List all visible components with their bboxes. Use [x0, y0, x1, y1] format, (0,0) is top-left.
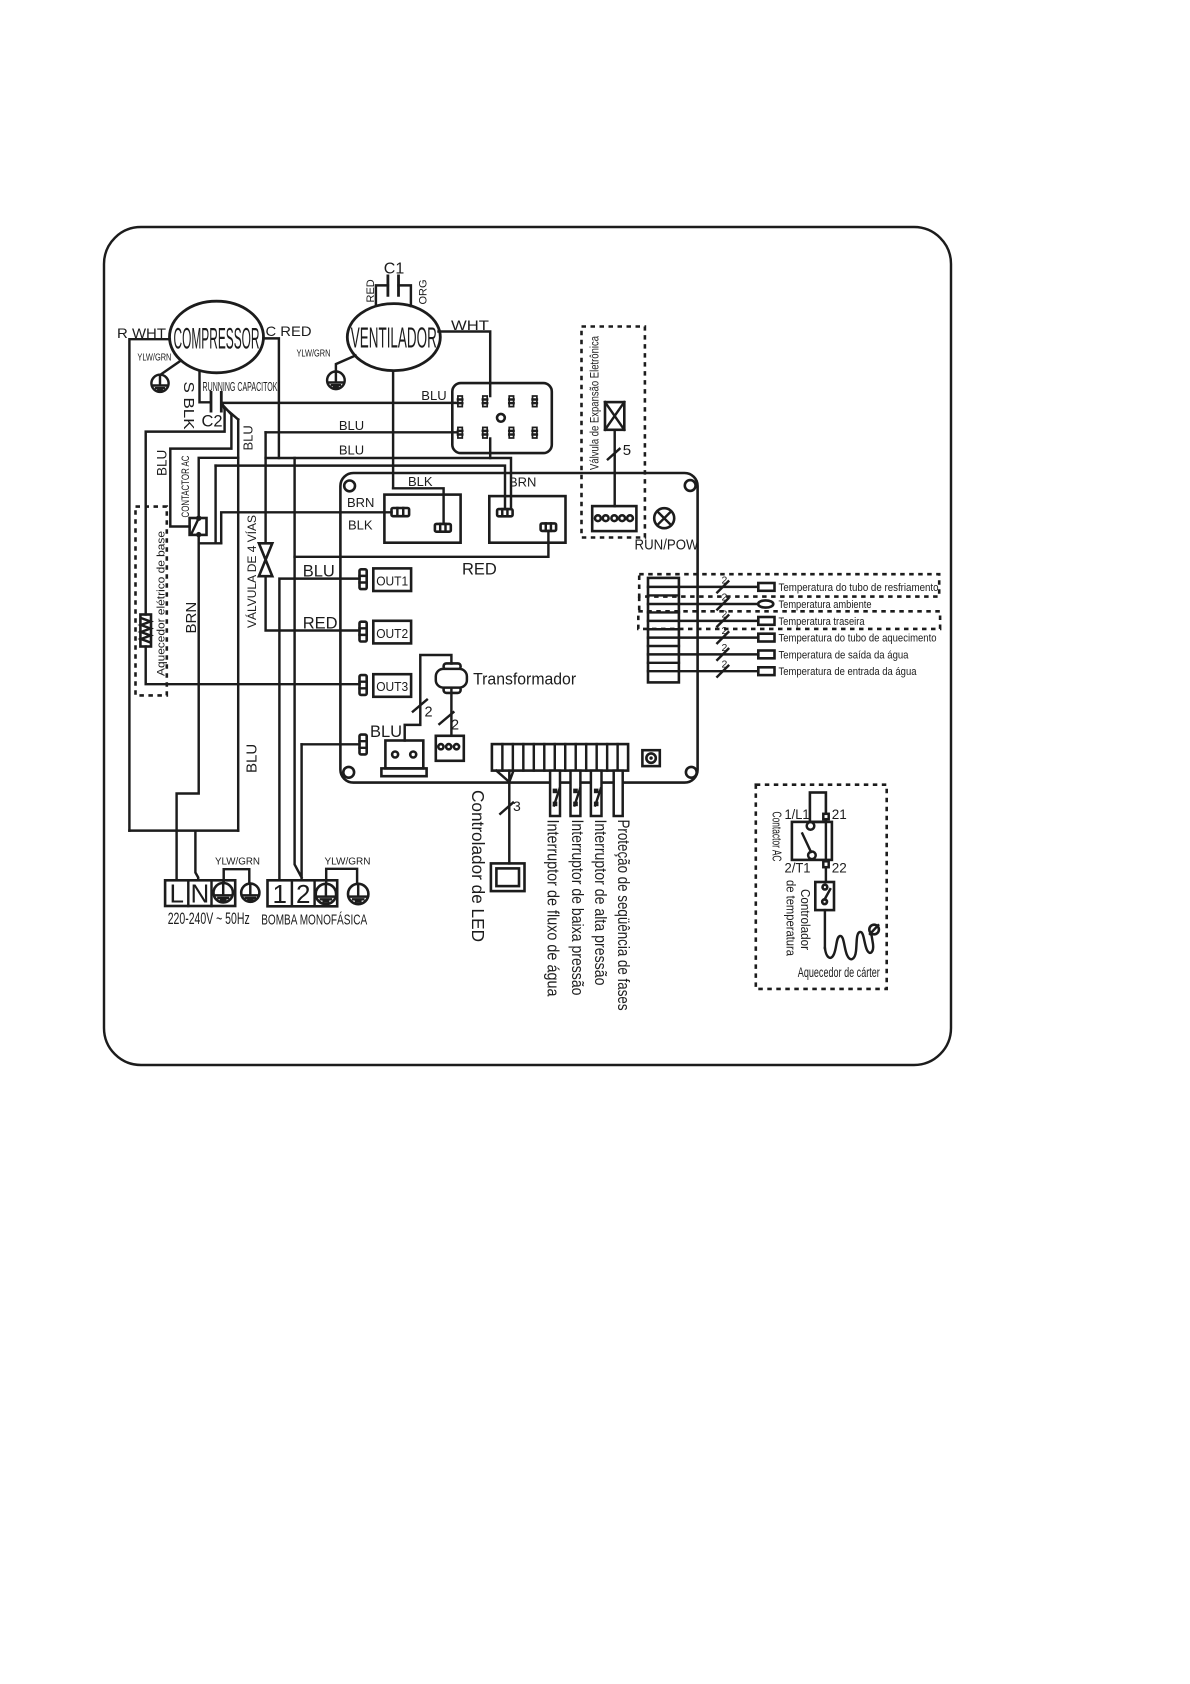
svg-text:ORG: ORG	[418, 279, 430, 304]
svg-text:BLU: BLU	[244, 744, 261, 773]
svg-text:BLU: BLU	[421, 388, 446, 403]
svg-text:22: 22	[832, 861, 847, 876]
svg-text:BLU: BLU	[303, 563, 335, 581]
svg-text:YLW/GRN: YLW/GRN	[297, 348, 331, 360]
svg-text:OUT1: OUT1	[376, 573, 408, 588]
svg-text:2: 2	[451, 718, 459, 734]
svg-text:Válvula de Expansão Eletrônica: Válvula de Expansão Eletrônica	[590, 336, 602, 470]
svg-text:Interruptor de fluxo de água: Interruptor de fluxo de água	[544, 820, 563, 997]
svg-text:CONTACTOR AC: CONTACTOR AC	[180, 455, 192, 517]
svg-text:C2: C2	[202, 413, 223, 431]
svg-text:Controlador de LED: Controlador de LED	[468, 790, 488, 942]
svg-text:BLU: BLU	[339, 442, 364, 457]
svg-text:2: 2	[425, 705, 433, 721]
svg-text:BLK: BLK	[348, 518, 373, 533]
svg-text:3: 3	[513, 798, 521, 814]
svg-text:Temperatura traseira: Temperatura traseira	[779, 616, 866, 628]
svg-text:BLU: BLU	[339, 418, 364, 433]
svg-text:Contactor AC: Contactor AC	[770, 812, 784, 862]
svg-text:Transformador: Transformador	[473, 671, 576, 689]
svg-text:Temperatura ambiente: Temperatura ambiente	[779, 599, 872, 611]
svg-text:Interruptor de alta pressão: Interruptor de alta pressão	[591, 820, 610, 986]
svg-text:de temperatura: de temperatura	[784, 880, 798, 956]
svg-text:BRN: BRN	[509, 475, 536, 490]
svg-text:RED: RED	[303, 615, 338, 633]
svg-text:Aquecedor de cárter: Aquecedor de cárter	[798, 965, 880, 980]
svg-text:BLU: BLU	[370, 723, 402, 741]
svg-text:Temperatura de entrada da água: Temperatura de entrada da água	[779, 666, 918, 678]
svg-text:2/T1: 2/T1	[785, 861, 811, 876]
svg-text:RUNNING CAPACITOK: RUNNING CAPACITOK	[203, 380, 278, 394]
svg-text:RUN/POW: RUN/POW	[635, 537, 700, 554]
svg-text:Temperatura de saída da água: Temperatura de saída da água	[779, 649, 910, 661]
svg-text:Aquecedor elétrico de base: Aquecedor elétrico de base	[156, 531, 168, 676]
svg-text:BRN: BRN	[183, 602, 200, 634]
svg-text:RED: RED	[365, 279, 377, 302]
svg-text:2: 2	[722, 625, 728, 637]
svg-text:2: 2	[296, 879, 310, 909]
svg-text:5: 5	[623, 442, 631, 459]
svg-text:21: 21	[832, 807, 847, 822]
svg-text:YLW/GRN: YLW/GRN	[325, 855, 371, 867]
svg-text:BLU: BLU	[155, 450, 170, 476]
svg-text:VENTILADOR: VENTILADOR	[351, 323, 437, 355]
svg-text:1: 1	[272, 879, 286, 909]
svg-text:BOMBA MONOFÁSICA: BOMBA MONOFÁSICA	[261, 911, 367, 928]
svg-text:YLW/GRN: YLW/GRN	[137, 352, 171, 364]
svg-text:BLK: BLK	[408, 474, 433, 489]
svg-text:Proteção de seqüência de fases: Proteção de seqüência de fases	[614, 820, 633, 1011]
svg-text:1/L1: 1/L1	[785, 807, 810, 822]
svg-text:Interruptor de baixa pressão: Interruptor de baixa pressão	[568, 820, 587, 996]
svg-text:Temperatura do tubo de resfria: Temperatura do tubo de resfriamento	[779, 582, 939, 594]
svg-text:2: 2	[722, 642, 728, 654]
svg-text:BRN: BRN	[347, 495, 374, 510]
svg-text:COMPRESSOR: COMPRESSOR	[174, 323, 260, 356]
svg-text:220-240V ~ 50Hz: 220-240V ~ 50Hz	[168, 909, 250, 928]
svg-text:VÁLVULA DE 4 VÍAS: VÁLVULA DE 4 VÍAS	[246, 515, 259, 628]
svg-text:BLU: BLU	[241, 425, 256, 450]
svg-text:Controlador: Controlador	[798, 889, 812, 950]
svg-text:RED: RED	[462, 561, 497, 579]
svg-text:YLW/GRN: YLW/GRN	[215, 856, 260, 868]
svg-text:S BLK: S BLK	[180, 382, 196, 430]
svg-text:C RED: C RED	[266, 323, 312, 339]
svg-text:2: 2	[722, 659, 728, 671]
svg-text:Temperatura do tubo de aquecim: Temperatura do tubo de aquecimento	[779, 633, 937, 645]
svg-text:OUT2: OUT2	[376, 626, 408, 641]
svg-text:2: 2	[722, 574, 728, 586]
svg-text:N: N	[191, 879, 210, 909]
svg-text:L: L	[169, 879, 183, 909]
svg-text:OUT3: OUT3	[376, 679, 408, 694]
